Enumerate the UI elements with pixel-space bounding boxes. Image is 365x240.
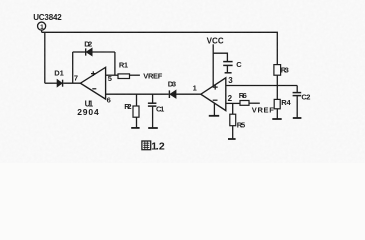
ground C2 <box>293 117 302 119</box>
wire VCC feed <box>212 44 214 86</box>
wire pin1 to D1 anode <box>45 82 57 84</box>
wire pin2 to R6 <box>226 102 240 104</box>
wire C2 bottom lead <box>296 96 298 118</box>
diode D3 <box>169 90 176 98</box>
op-amp U1 plus input <box>91 71 96 76</box>
resistor R3 <box>274 65 281 76</box>
wire VCC branch to C <box>213 53 227 61</box>
wire R4 bottom lead <box>276 109 278 119</box>
op-amp U1 minus input <box>92 88 96 90</box>
resistor R4 <box>274 99 280 108</box>
ground op-amp2 <box>209 115 219 117</box>
resistor R2 <box>133 106 139 117</box>
wire pin5 to R1 <box>106 74 118 76</box>
wire C1 top lead <box>152 94 154 103</box>
wire C bottom lead <box>226 66 228 72</box>
wire R2 bottom lead <box>136 117 138 127</box>
wire D1 cathode to U1 output pin7 <box>63 82 80 84</box>
capacitor C1 <box>148 102 157 104</box>
resistor R5 <box>230 114 236 126</box>
caption figure 1.2 <box>142 141 165 153</box>
resistor R6 <box>240 101 249 106</box>
diode D2 <box>86 48 92 55</box>
wire D3 to op-amp2 output <box>176 93 201 95</box>
wire R4 top lead <box>276 86 278 100</box>
ground R5 <box>228 138 236 140</box>
wire C1 bottom lead <box>152 107 154 128</box>
wire R1 to VREF <box>130 74 140 76</box>
wire feedback loop top with D2 <box>73 51 86 53</box>
wire R6 to VREF <box>249 102 260 104</box>
wire R5 bottom lead <box>232 126 234 139</box>
wire R2 top lead <box>136 94 138 106</box>
wire R3 bottom lead <box>276 75 278 85</box>
op-amp U2 plus input <box>213 85 218 90</box>
resistor R1 <box>118 74 130 79</box>
op-amp U2 <box>201 78 226 111</box>
ground C1 <box>148 127 158 129</box>
wire pin3 net <box>226 85 297 87</box>
wire pin6 net to D3 <box>106 93 169 95</box>
wire C2 top lead <box>296 86 298 93</box>
capacitor C <box>223 61 232 63</box>
wire op-amp2 ground lead <box>213 103 215 116</box>
op-amp U2 minus input <box>213 99 218 101</box>
wire feedback loop left vertical <box>72 52 74 83</box>
scan noise overlay <box>0 0 1 1</box>
op-amp U1 <box>80 67 105 99</box>
capacitor C2 <box>293 92 302 94</box>
ground R4 <box>272 118 281 120</box>
ground R2 <box>131 127 139 129</box>
node pin1 UC3842 circled 1 <box>38 22 46 32</box>
wire drop from rail to D1 <box>44 32 46 83</box>
wire R5 top lead <box>232 103 234 114</box>
node C bottom junction bar <box>225 72 232 74</box>
diode D1 <box>57 80 62 87</box>
wire feedback loop right vertical <box>114 52 116 75</box>
wire top rail from pin1 to R3 <box>42 32 278 64</box>
